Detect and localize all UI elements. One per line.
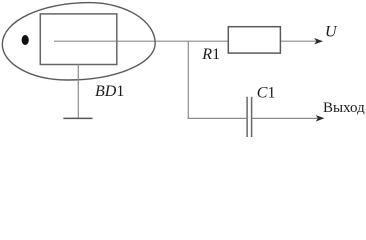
- svg-text:Выход: Выход: [323, 100, 365, 116]
- svg-text:BD1: BD1: [95, 83, 124, 100]
- svg-text:U: U: [325, 24, 338, 41]
- svg-text:C1: C1: [257, 85, 276, 102]
- svg-text:R1: R1: [201, 46, 220, 63]
